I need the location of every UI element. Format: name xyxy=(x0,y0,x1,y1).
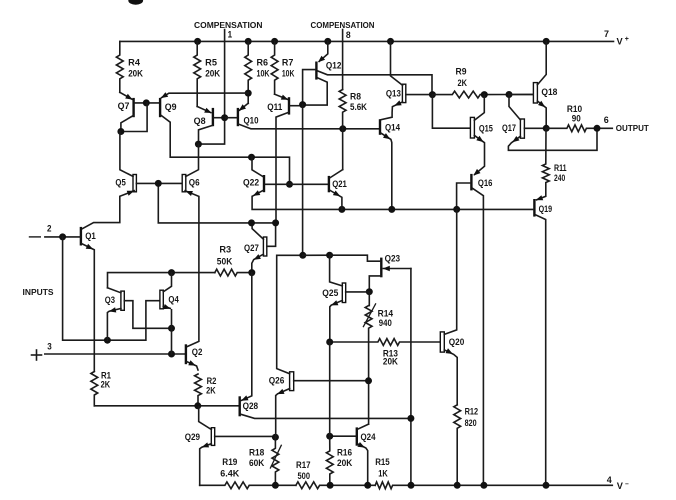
wire: R5 to Q8 emitter xyxy=(197,107,211,113)
wire: Q5 collector xyxy=(120,132,133,177)
wire: Q25 base xyxy=(346,291,370,293)
wire: Q18 base xyxy=(509,94,533,96)
resistor R16 20K xyxy=(326,436,333,485)
wire: Q26 node to Q23 base node xyxy=(303,254,330,256)
svg-text:R10: R10 xyxy=(567,104,582,114)
wire: Q18 collector xyxy=(537,41,546,84)
wire: Q8 collector xyxy=(199,125,213,144)
svg-text:+: + xyxy=(625,36,629,43)
wire: Q13 node to Q15 base xyxy=(432,95,470,129)
junction input 2 node xyxy=(59,233,66,240)
svg-text:R16: R16 xyxy=(337,447,352,457)
svg-text:Q15: Q15 xyxy=(479,123,493,133)
transistor Q11 (NPN) xyxy=(288,97,290,114)
resistor R18 60K xyxy=(272,437,279,485)
junction R14 / Q26 base / Q24 collector node xyxy=(365,377,372,384)
wire: Q29 base xyxy=(215,435,275,437)
svg-text:Q7: Q7 xyxy=(118,101,130,111)
svg-text:2K: 2K xyxy=(458,78,468,88)
wire: Q27 emitter node to Q28 xyxy=(241,273,252,401)
transistor Q6 (PNP) xyxy=(182,175,186,192)
wire: Q16 base xyxy=(457,183,471,209)
svg-text:Q20: Q20 xyxy=(449,337,465,347)
wire: Q20 emitter to R12 xyxy=(444,350,457,405)
resistor R14 940 xyxy=(365,292,372,425)
resistor R13 20K xyxy=(330,339,441,346)
svg-text:Q18: Q18 xyxy=(541,87,557,97)
junction Q23 column / V- rail xyxy=(408,482,415,489)
svg-text:Q28: Q28 xyxy=(243,401,259,411)
svg-text:Q6: Q6 xyxy=(189,177,200,187)
transistor Q17 (NPN) xyxy=(520,119,524,138)
svg-text:1K: 1K xyxy=(378,468,388,478)
resistor R4 20K xyxy=(116,41,123,92)
wire: R4 to Q7 emitter xyxy=(120,92,132,99)
svg-text:Q13: Q13 xyxy=(386,89,401,99)
transistor Q14 (NPN) xyxy=(379,119,381,135)
svg-text:R17: R17 xyxy=(296,460,311,470)
wire: Q24 collector xyxy=(358,424,369,429)
junction Q24 base / R16 node xyxy=(326,433,333,440)
svg-text:90: 90 xyxy=(572,114,581,124)
wire: Q28 collector xyxy=(241,414,411,418)
transistor Q5 (PNP) xyxy=(133,175,136,192)
wire: Q13 emitter to Q14 collector xyxy=(381,102,402,120)
svg-text:Q25: Q25 xyxy=(322,288,338,298)
svg-text:50K: 50K xyxy=(217,256,233,266)
wire: Q12 collector 1 (diode tie) xyxy=(304,78,327,105)
junction Q4 emitter node xyxy=(168,325,175,332)
transistor Q12 (PNP) xyxy=(315,62,317,80)
svg-text:R7: R7 xyxy=(282,57,294,67)
junction Q13 base / R9 node xyxy=(429,91,436,98)
transistor Q25 (PNP) xyxy=(342,283,345,303)
svg-text:Q24: Q24 xyxy=(361,432,377,442)
wire: Q8 base xyxy=(214,117,223,119)
wire: Q7 base xyxy=(135,102,159,104)
junction Q3 emitter node xyxy=(104,337,111,344)
wire: Q10 base xyxy=(226,117,237,119)
wire: Q23 collector xyxy=(369,276,381,292)
svg-text:20K: 20K xyxy=(128,69,143,79)
wire: input 2 node to Q4 base xyxy=(63,237,160,340)
junction R9 / Q15 collector node xyxy=(481,91,488,98)
wire: Q27 base xyxy=(267,223,276,246)
svg-text:940: 940 xyxy=(379,318,392,328)
junction Q12 base-collector node xyxy=(299,101,306,108)
wire: Q17 emitter to output xyxy=(508,128,597,150)
wire: Q26 collector xyxy=(277,255,303,373)
junction Q26 collector / Q12 node xyxy=(299,252,306,259)
svg-text:8: 8 xyxy=(346,30,351,40)
svg-text:Q10: Q10 xyxy=(244,115,259,125)
junction R2 / Q29 collector node xyxy=(194,402,201,409)
svg-text:R4: R4 xyxy=(128,57,141,67)
junction Q13 collector/V+ rail xyxy=(387,38,394,45)
wire: Q25 collector xyxy=(330,255,343,286)
transistor Q24 (NPN) xyxy=(356,427,358,445)
svg-text:Q23: Q23 xyxy=(385,254,401,264)
junction R8/Q14 base node xyxy=(339,125,346,132)
resistor R7 10K xyxy=(271,41,278,94)
wire: input 2 to Q1 base xyxy=(45,236,80,238)
transistor Q13 (NPN) xyxy=(402,84,405,102)
wire: Q2 emitter to R2 xyxy=(187,362,198,370)
junction Q14 emitter/bus xyxy=(388,206,395,213)
wire: Q29 emitter to V- rail xyxy=(200,444,212,486)
wire: Q5 emitter to Q1 collector xyxy=(82,191,134,229)
resistor R2 2K xyxy=(195,374,202,406)
wire: Q29 collector xyxy=(199,407,212,430)
svg-text:1: 1 xyxy=(228,30,233,40)
junction Q27 collector node xyxy=(248,219,255,226)
wire: Q25 emitter xyxy=(330,300,343,342)
svg-text:500: 500 xyxy=(298,471,311,481)
transistor Q1 (NPN) xyxy=(80,227,82,246)
svg-text:V: V xyxy=(617,36,624,46)
svg-text:Q29: Q29 xyxy=(185,432,200,442)
resistor R6 10K xyxy=(245,41,252,103)
junction Q18 collector/V+ rail xyxy=(543,38,550,45)
svg-text:10K: 10K xyxy=(257,69,270,79)
wire: Q11 base xyxy=(290,105,301,107)
transistor Q16 (PNP) xyxy=(470,174,472,191)
transistor Q8 (PNP) xyxy=(212,108,214,126)
wire: Q20 collector to bus xyxy=(444,209,456,334)
svg-text:R11: R11 xyxy=(554,163,567,173)
junction R6/V+ rail xyxy=(245,38,252,45)
svg-text:R5: R5 xyxy=(205,57,217,67)
wire: Q3 base xyxy=(124,301,170,329)
wire: Q15 collector xyxy=(474,95,484,121)
wire: Q5-Q6 base node to Q27 xyxy=(158,183,275,223)
wire: Q26 emitter xyxy=(276,389,290,438)
wire: Q4 emitter xyxy=(163,306,170,308)
wire: Q13 collector xyxy=(391,41,403,85)
transistor Q27 (PNP) xyxy=(263,237,266,256)
wire: Q4 upper diagonal xyxy=(163,273,171,292)
svg-text:Q5: Q5 xyxy=(115,177,125,187)
junction Q18 emitter / R10 node xyxy=(543,125,550,132)
svg-text:R14: R14 xyxy=(378,309,394,319)
svg-text:V: V xyxy=(617,481,624,491)
transistor Q9 (PNP) xyxy=(159,98,161,117)
svg-text:Q27: Q27 xyxy=(244,243,259,253)
junction R7/V+ rail xyxy=(271,38,278,45)
junction Q21 emitter/bus xyxy=(338,206,345,213)
transistor Q18 (NPN) xyxy=(533,83,537,103)
junction Q16 base-Q20 collector/bus xyxy=(453,206,460,213)
svg-text:20K: 20K xyxy=(337,458,353,468)
svg-text:Q1: Q1 xyxy=(85,231,96,241)
junction Q25 base node xyxy=(366,288,373,295)
wire: Q17 base xyxy=(524,127,545,129)
wire: Q21 collector xyxy=(330,170,343,178)
resistor R3 50K xyxy=(215,269,252,276)
wire: Q15 emitter to Q16 emitter xyxy=(474,135,484,174)
junction Q17 collector node xyxy=(506,91,513,98)
junction Q22 collector node xyxy=(248,154,255,161)
resistor R1 2K xyxy=(91,372,98,406)
resistor R10 90 xyxy=(546,125,612,132)
R18 adjustment slash xyxy=(270,445,281,468)
junction Q27 base / Q11 collector node xyxy=(272,219,279,226)
transistor Q21 (NPN) xyxy=(328,176,330,192)
wire: Q23 base xyxy=(330,255,381,261)
svg-text:INPUTS: INPUTS xyxy=(23,287,54,297)
junction Q16 collector / V- rail xyxy=(480,482,487,489)
wire: V+ rail (pin 7) xyxy=(120,40,613,42)
wire: Q4 emitter node drop xyxy=(171,310,173,354)
transistor Q22 (NPN) xyxy=(263,175,265,192)
svg-text:3: 3 xyxy=(47,342,52,352)
svg-text:Q11: Q11 xyxy=(267,102,282,112)
wire: R7 to Q11 emitter xyxy=(275,94,288,99)
svg-text:Q4: Q4 xyxy=(168,295,179,305)
svg-text:4: 4 xyxy=(607,475,613,485)
junction R16 / V- rail xyxy=(327,482,334,489)
svg-text:R9: R9 xyxy=(456,66,467,76)
wire: Q21 emitter xyxy=(330,190,342,209)
wire: V- rail (pin 4) xyxy=(200,482,296,489)
transistor Q15 (NPN) xyxy=(470,117,474,138)
wire: Q10 collector to Q14 base xyxy=(239,124,379,129)
junction Q23 base / Q25 collector node xyxy=(326,252,333,259)
svg-text:240: 240 xyxy=(554,173,565,183)
svg-text:2K: 2K xyxy=(101,380,111,390)
wire: Q22 emitter xyxy=(253,191,263,196)
wire: Q23 emitter column xyxy=(410,269,412,486)
svg-text:60K: 60K xyxy=(249,458,265,468)
transistor Q10 (PNP) xyxy=(237,108,239,126)
wire: Q13 base xyxy=(406,94,432,96)
cropped title text fragment xyxy=(128,0,143,5)
svg-text:R8: R8 xyxy=(350,92,361,102)
wire: bias bus xyxy=(252,196,533,209)
svg-text:Q16: Q16 xyxy=(478,178,493,188)
wire: R6 node to Q10 emitter xyxy=(240,103,249,110)
transistor Q4 (PNP) xyxy=(160,290,163,309)
transistor Q2 (NPN) xyxy=(185,344,187,364)
resistor R11 240 xyxy=(537,128,550,200)
svg-text:Q12: Q12 xyxy=(326,61,342,71)
wire: Q7 collector xyxy=(121,116,133,132)
wire: Q5 base to Q6 base xyxy=(136,182,182,184)
wire: Q27 collector xyxy=(252,223,263,239)
wire: Q16 collector to V- rail xyxy=(473,188,484,485)
svg-text:Q22: Q22 xyxy=(243,178,259,188)
svg-text:R15: R15 xyxy=(375,457,390,467)
junction R12 / V- rail xyxy=(454,482,461,489)
wire: Q18 emitter xyxy=(537,101,546,128)
transistor Q20 (NPN) xyxy=(440,332,444,352)
svg-text:820: 820 xyxy=(465,418,477,428)
wire: Q23 emitter xyxy=(383,268,411,270)
junction R3 / Q27 emitter node xyxy=(248,269,255,276)
transistor Q19 (PNP) xyxy=(533,199,535,217)
wire: Q6 emitter to Q2 collector xyxy=(185,191,199,347)
svg-text:7: 7 xyxy=(604,29,609,39)
wire: Q24 emitter to V- rail xyxy=(358,444,368,485)
svg-text:R6: R6 xyxy=(257,57,269,67)
wire: Q22 collector xyxy=(252,157,263,176)
svg-text:Q14: Q14 xyxy=(385,123,401,133)
wire: Q26 base xyxy=(294,380,369,382)
junction Q24 emitter / V- rail xyxy=(364,482,371,489)
junction R5/V+ rail xyxy=(194,38,201,45)
svg-text:Q8: Q8 xyxy=(194,116,206,126)
junction R6 bottom node xyxy=(245,90,252,97)
svg-text:6: 6 xyxy=(604,115,609,125)
wire: Q7 collector to base link xyxy=(121,103,147,132)
svg-text:OUTPUT: OUTPUT xyxy=(616,123,650,133)
input pin 2 minus sign xyxy=(30,236,41,238)
wire: Q3 collector top rail xyxy=(108,273,215,288)
svg-text:6.4K: 6.4K xyxy=(220,468,239,478)
resistor R9 2K xyxy=(432,91,533,98)
svg-text:Q26: Q26 xyxy=(269,375,285,385)
svg-text:Q3: Q3 xyxy=(105,295,115,305)
transistor Q3 (PNP) xyxy=(121,291,124,310)
wire: Q12 collector 2 to Q13 base node xyxy=(318,71,432,95)
svg-text:20K: 20K xyxy=(383,357,398,367)
svg-text:Q17: Q17 xyxy=(502,123,516,133)
wire: Q1 emitter to R1 xyxy=(82,244,94,372)
wire: R6 node to Q9 emitter xyxy=(162,93,249,98)
junction Q21/Q22 base node xyxy=(286,181,293,188)
junction Q29 base / Q26 emitter / R18 node xyxy=(272,434,279,441)
resistor R12 820 xyxy=(454,405,461,486)
svg-text:R19: R19 xyxy=(222,457,237,467)
junction Q19 emitter / V- rail xyxy=(543,482,550,489)
junction Q7 collector node xyxy=(117,128,124,135)
junction input 3 / Q2 base node xyxy=(168,351,175,358)
transistor Q28 (PNP) xyxy=(239,396,241,416)
svg-text:R12: R12 xyxy=(465,407,479,417)
wire: compensation pin 1 lead xyxy=(198,30,224,145)
junction Q4 collector node xyxy=(168,269,175,276)
wire: Q24 base xyxy=(330,435,356,437)
wire: Q17 collector xyxy=(509,95,520,120)
svg-text:10K: 10K xyxy=(282,69,295,79)
wire: Q3 emitter xyxy=(107,309,121,341)
svg-text:R18: R18 xyxy=(249,447,264,457)
transistor Q7 (PNP) xyxy=(132,98,134,117)
transistor Q26 (PNP) xyxy=(290,372,294,391)
junction output node xyxy=(594,125,601,132)
junction Q28 collector / Q23 emitter column xyxy=(407,415,414,422)
svg-text:Q21: Q21 xyxy=(332,179,347,189)
junction R13 / Q25 emitter column node xyxy=(326,339,333,346)
svg-text:2: 2 xyxy=(47,224,52,234)
wire: Q12 base xyxy=(303,70,316,103)
svg-text:Q2: Q2 xyxy=(192,347,203,357)
transistor Q29 (PNP) xyxy=(211,428,214,446)
R14 adjustment slash xyxy=(363,304,375,327)
transistor Q23 (PNP) xyxy=(380,258,382,278)
junction Q7 base/mirror xyxy=(143,99,150,106)
wire: Q9 collector xyxy=(161,116,289,184)
junction Q12 emitter/V+ rail xyxy=(324,38,331,45)
svg-text:Q9: Q9 xyxy=(165,102,177,112)
wire: Q11 collector xyxy=(276,112,288,222)
wire: Q12 emitter from V+ xyxy=(319,41,328,61)
svg-text:20K: 20K xyxy=(205,69,220,79)
svg-text:−: − xyxy=(625,481,629,488)
wire: Q3 upper diagonal xyxy=(108,288,121,293)
input pin 3 plus sign xyxy=(32,354,42,356)
resistor R8 5.6K xyxy=(339,90,346,170)
junction Q8 collector / pin1 node xyxy=(195,141,202,148)
wire: Q27 emitter xyxy=(252,254,264,272)
wire: R1-R2 node to Q28 base xyxy=(94,405,238,407)
wire: Q22 base to Q21 base xyxy=(265,183,328,185)
wire: Q14 emitter xyxy=(381,133,392,209)
svg-text:5.6K: 5.6K xyxy=(350,102,367,112)
svg-text:R3: R3 xyxy=(219,245,231,255)
junction Q5-Q6 base node xyxy=(155,180,162,187)
wire: compensation pin 8 lead xyxy=(342,30,344,90)
wire: Q12 node down to Q26 node xyxy=(302,105,304,256)
wire: input 3 to Q2 base xyxy=(45,353,185,355)
junction R18 / V- rail xyxy=(272,482,279,489)
svg-text:2K: 2K xyxy=(206,386,216,396)
svg-text:Q19: Q19 xyxy=(539,204,553,214)
wire: Q25 emitter column xyxy=(329,342,331,436)
wire: Q19 emitter to V- rail xyxy=(536,215,546,486)
junction compensation pin1 / Q8-Q10 bases xyxy=(221,114,228,121)
wire: Q6 collector xyxy=(186,144,199,176)
resistor R5 20K xyxy=(194,41,201,106)
